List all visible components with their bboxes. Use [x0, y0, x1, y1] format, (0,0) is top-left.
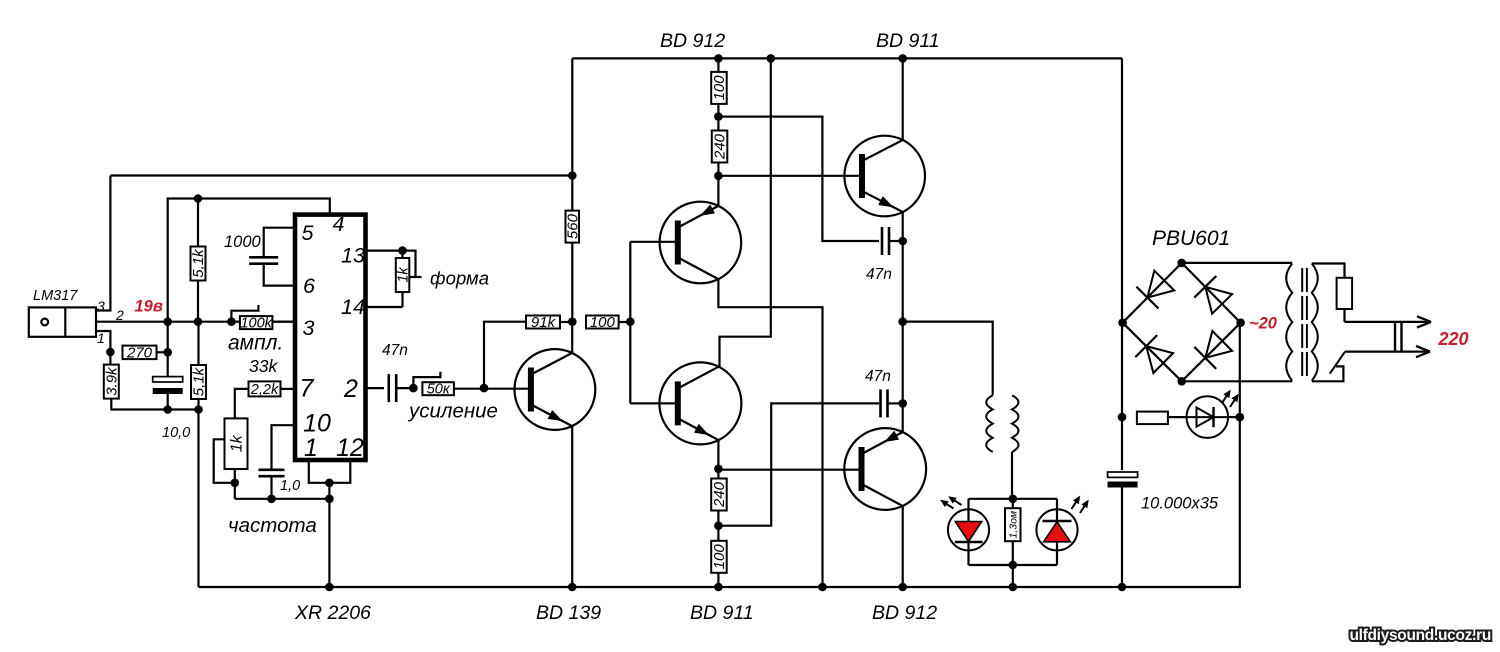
- wire bottom of left block: [110, 408, 198, 410]
- wire fuse to plug: [1343, 309, 1345, 322]
- svg-text:1,0: 1,0: [280, 478, 300, 494]
- wire BD139 base: [484, 388, 528, 390]
- svg-text:3.9k: 3.9k: [103, 366, 120, 396]
- resistor 240 lower chain: [711, 479, 727, 511]
- svg-text:220: 220: [1438, 329, 1469, 349]
- wire pin2 stub: [366, 387, 385, 389]
- node bridge left: [1118, 318, 1127, 327]
- node 1k wiper: [231, 479, 240, 488]
- wire chain mid to 47n: [718, 117, 879, 241]
- svg-text:PBU601: PBU601: [1152, 227, 1230, 250]
- wire pin3 row: [231, 321, 240, 323]
- node lower chain mid: [714, 521, 723, 530]
- capacitor 47n coupling: [387, 374, 390, 402]
- wire cap to rail: [1121, 488, 1123, 588]
- node indicator right: [1236, 413, 1245, 422]
- wire chip ground drop: [328, 483, 330, 587]
- capacitor 47n lower: [879, 389, 882, 417]
- svg-text:7: 7: [300, 375, 315, 403]
- wire 270 right: [157, 351, 168, 353]
- wire supply column: [1121, 323, 1123, 417]
- switch S1: [1312, 366, 1344, 381]
- transformer core: [1301, 268, 1303, 379]
- wire choke down: [1011, 452, 1013, 499]
- node rail chain: [714, 54, 723, 63]
- potentiometer 100k: [240, 316, 273, 329]
- svg-text:100k: 100k: [240, 316, 272, 332]
- svg-text:ulfdiysound.ucoz.ru: ulfdiysound.ucoz.ru: [1349, 627, 1491, 644]
- node pin1-270: [106, 348, 115, 357]
- svg-text:47n: 47n: [865, 368, 891, 385]
- wire upper base: [630, 241, 675, 243]
- bridge PBU601 frame: [1123, 263, 1241, 381]
- wire 902 to BD912 emitter: [902, 403, 904, 432]
- wire top rail corner: [571, 58, 573, 210]
- inductor choke right layer: [1012, 395, 1019, 452]
- wire bridge bottom to primary: [1182, 380, 1293, 382]
- resistor 91k: [526, 316, 560, 329]
- node BD911 rail: [898, 54, 907, 63]
- node out mid: [898, 317, 907, 326]
- wiper forma: [403, 251, 416, 277]
- svg-text:BD 912: BD 912: [660, 30, 725, 52]
- wire chain mid to 47n lower: [718, 403, 879, 525]
- svg-text:47n: 47n: [866, 266, 892, 283]
- node 100k left: [227, 317, 236, 326]
- wire BD912 collector: [902, 506, 904, 587]
- node bridge right: [1236, 318, 1245, 327]
- transistor BD911 output upper: [844, 136, 925, 217]
- resistor 100 mid: [586, 316, 619, 329]
- svg-text:10,0: 10,0: [162, 425, 190, 441]
- wire top rail: [572, 57, 1122, 59]
- node bridge top: [1177, 259, 1186, 268]
- svg-text:4: 4: [333, 212, 345, 236]
- diode bridge top-left: [1147, 271, 1174, 298]
- node forma top: [398, 246, 407, 255]
- inductor choke left layer: [986, 395, 993, 452]
- node 560 bottom: [568, 317, 577, 326]
- svg-text:форма: форма: [430, 268, 489, 289]
- resistor 1,3om: [1005, 508, 1021, 541]
- fuse F1: [1337, 278, 1353, 309]
- svg-text:1: 1: [304, 434, 318, 462]
- resistor 240 upper chain: [712, 131, 728, 163]
- resistor 3.9k: [104, 365, 119, 399]
- capacitor 47n upper: [881, 227, 884, 255]
- svg-text:5: 5: [302, 221, 315, 245]
- wire pin10: [272, 425, 294, 468]
- wire minus column: [1239, 323, 1241, 417]
- wire res to LED: [1168, 416, 1187, 418]
- node drive column: [626, 317, 635, 326]
- wire lower base: [630, 402, 675, 404]
- wire BD139 collector: [571, 322, 573, 353]
- svg-text:240: 240: [712, 133, 729, 160]
- node led block top: [1009, 495, 1018, 504]
- transistor BD912 driver upper: [660, 202, 742, 284]
- svg-text:14: 14: [341, 295, 365, 319]
- node 270-adj: [163, 348, 172, 357]
- plug P1: [1394, 322, 1396, 352]
- wire LM317 pin2 output row: [96, 321, 293, 323]
- wire chain to upper emitter: [717, 176, 719, 206]
- wire pins 1-12 ground: [309, 460, 351, 483]
- svg-text:LM317: LM317: [33, 288, 78, 304]
- svg-text:100: 100: [711, 544, 728, 570]
- wire 47n lower right: [888, 402, 903, 404]
- svg-text:1,3ом: 1,3ом: [1007, 511, 1019, 539]
- svg-text:1k: 1k: [395, 267, 411, 283]
- node cap10 bottom: [163, 405, 172, 414]
- svg-text:BD 911: BD 911: [690, 602, 754, 624]
- wire indicator right: [1228, 416, 1240, 418]
- svg-text:BD 139: BD 139: [536, 602, 601, 624]
- transistor BD139 Q1: [515, 349, 596, 430]
- wire drive column: [629, 242, 631, 404]
- node pins ground mid: [325, 479, 334, 488]
- svg-text:91k: 91k: [531, 314, 557, 331]
- node BD139 base: [480, 384, 489, 393]
- node chip gnd rail: [325, 583, 334, 592]
- capacitor 10.000x35: [1108, 472, 1138, 477]
- node led row left: [1118, 413, 1127, 422]
- node lower chain top: [714, 465, 723, 474]
- wire BD911 collector: [902, 58, 904, 140]
- wire 560 to row: [571, 243, 573, 322]
- arrow 220 bottom: [1345, 351, 1428, 353]
- svg-text:270: 270: [126, 344, 153, 361]
- capacitor 1000: [249, 256, 278, 259]
- svg-text:XR 2206: XR 2206: [294, 602, 371, 624]
- node lower chain rail: [714, 583, 723, 592]
- svg-text:BD 912: BD 912: [872, 602, 937, 624]
- svg-text:1000: 1000: [224, 233, 262, 251]
- node 50k left: [409, 384, 418, 393]
- LM317 regulator U2 body: [29, 307, 96, 336]
- resistor 5,1k lower: [191, 365, 206, 399]
- node led block rail: [1009, 583, 1018, 592]
- wire rail column 770: [720, 58, 771, 366]
- transformer secondary winding: [1312, 264, 1318, 381]
- LED D2 arrows: [1072, 498, 1079, 509]
- resistor 270: [123, 346, 157, 360]
- wire 47n upper right: [889, 240, 903, 242]
- wire feedback riser: [484, 322, 526, 388]
- svg-text:47n: 47n: [382, 342, 408, 359]
- svg-text:100: 100: [711, 75, 728, 101]
- wire upper driver collector: [718, 279, 822, 587]
- potentiometer 1k chastota: [225, 418, 248, 469]
- LED D3 arrows: [1222, 392, 1229, 403]
- wire +V from LM317 input to 560 node: [110, 174, 572, 176]
- svg-text:100: 100: [590, 314, 616, 331]
- wire LM317 pin1: [96, 331, 110, 352]
- resistor 5,1k upper: [191, 247, 206, 281]
- svg-text:13: 13: [341, 244, 365, 268]
- wire BD911 emitter: [902, 212, 904, 241]
- wire 902 column: [902, 241, 904, 322]
- resistor 100 upper chain: [711, 72, 727, 104]
- node pin2 5.1k: [194, 317, 203, 326]
- wire 902 column lower: [902, 322, 904, 404]
- arrow 220 top: [1345, 321, 1430, 323]
- wiper 100k: [231, 305, 258, 322]
- diode bridge bottom-right: [1205, 331, 1232, 358]
- svg-text:12: 12: [336, 434, 364, 462]
- LED D1 left: [948, 509, 989, 550]
- resistor 2,2k: [249, 381, 281, 396]
- svg-text:1k: 1k: [228, 434, 245, 452]
- node 19v-560: [568, 171, 577, 180]
- node pin2-cap: [163, 317, 172, 326]
- wire supply column 2: [1121, 417, 1123, 470]
- node supply rail: [1118, 583, 1127, 592]
- svg-text:50к: 50к: [427, 382, 451, 398]
- svg-text:2,2k: 2,2k: [250, 382, 279, 398]
- transistor BD912 output lower: [844, 428, 926, 510]
- svg-text:1: 1: [97, 330, 105, 346]
- wire left ground drop: [197, 410, 199, 588]
- wiper 1k: [214, 439, 235, 483]
- svg-text:560: 560: [564, 213, 581, 239]
- wiper 50k: [413, 372, 440, 388]
- capacitor 10,0 electrolytic: [153, 377, 183, 382]
- node chain mid: [714, 112, 723, 121]
- svg-text:33k: 33k: [249, 356, 278, 376]
- wire 100 right: [619, 321, 631, 323]
- wire pin14: [366, 306, 403, 308]
- node 47n upper: [898, 237, 907, 246]
- wire BD911out base line: [718, 175, 859, 177]
- node led block bottom: [1009, 561, 1018, 570]
- resistor 100 lower chain: [711, 541, 727, 573]
- wire 2.2k right: [281, 388, 294, 390]
- wire BD912out base line: [718, 469, 859, 471]
- wire pin13: [366, 250, 403, 252]
- svg-text:6: 6: [303, 274, 315, 298]
- node chip gnd row: [325, 495, 334, 504]
- node 822 rail: [818, 583, 827, 592]
- IC XR2206 body: [295, 215, 366, 460]
- node BD912 rail: [898, 583, 907, 592]
- node 1,0 bottom: [267, 495, 276, 504]
- wire 91k-560: [560, 321, 572, 323]
- svg-text:5,1k: 5,1k: [190, 248, 207, 278]
- wire lower driver emitter: [717, 440, 719, 469]
- wire led block frame: [969, 498, 1058, 500]
- svg-text:~20: ~20: [1249, 315, 1278, 333]
- wire BD139 emitter: [571, 426, 573, 587]
- node chain bottom: [714, 172, 723, 181]
- wire out to choke: [903, 322, 993, 396]
- diode bridge top-right: [1205, 287, 1232, 314]
- potentiometer 1k forma: [396, 258, 410, 292]
- node 5.1k bottom: [194, 405, 203, 414]
- wire pin6: [264, 265, 293, 286]
- wire chastota row: [235, 498, 330, 500]
- wire minus column low: [199, 417, 1240, 587]
- wire 1,0 bottom: [270, 478, 272, 499]
- wire cap to 50k: [397, 387, 413, 389]
- wire 2.2k left to 1k: [235, 389, 249, 419]
- transformer primary winding: [1286, 264, 1292, 381]
- wire LM317 pin3 to +V line: [96, 176, 110, 311]
- LED D2 right: [1036, 509, 1077, 550]
- svg-text:240: 240: [711, 481, 728, 508]
- node rail 770: [767, 54, 776, 63]
- capacitor 1,0: [259, 468, 285, 471]
- wire secondary top to fuse: [1312, 264, 1345, 278]
- wire 19v riser: [168, 199, 330, 322]
- node 5.1k top riser: [194, 194, 203, 203]
- diode bridge bottom-left: [1146, 346, 1173, 373]
- wire pin5: [264, 228, 293, 256]
- transistor BD911 driver lower: [659, 362, 741, 444]
- svg-text:3: 3: [303, 316, 315, 340]
- resistor indicator: [1137, 412, 1168, 425]
- svg-text:частота: частота: [228, 514, 317, 537]
- wire rail right corner: [1121, 58, 1123, 322]
- wire adj vertical: [167, 322, 169, 377]
- svg-text:ампл.: ампл.: [228, 332, 283, 355]
- node bridge bottom: [1177, 377, 1186, 386]
- svg-text:5,1k: 5,1k: [191, 366, 208, 396]
- svg-text:10.000x35: 10.000x35: [1141, 495, 1219, 513]
- LED D1 arrows: [943, 501, 954, 508]
- wire 50k to base: [454, 388, 484, 390]
- wire 1k bottom: [234, 469, 236, 499]
- svg-text:BD 911: BD 911: [876, 30, 940, 52]
- LED indicator D3: [1187, 396, 1229, 438]
- wire led block to rail: [1012, 565, 1014, 587]
- svg-text:19в: 19в: [135, 298, 163, 316]
- wire bridge top to primary: [1182, 262, 1293, 264]
- svg-text:усиление: усиление: [407, 400, 498, 423]
- svg-text:2: 2: [343, 375, 358, 403]
- resistor 560: [566, 211, 580, 243]
- node 47n lower: [898, 399, 907, 408]
- potentiometer 50k: [422, 382, 454, 395]
- node BD139 emitter rail: [568, 583, 577, 592]
